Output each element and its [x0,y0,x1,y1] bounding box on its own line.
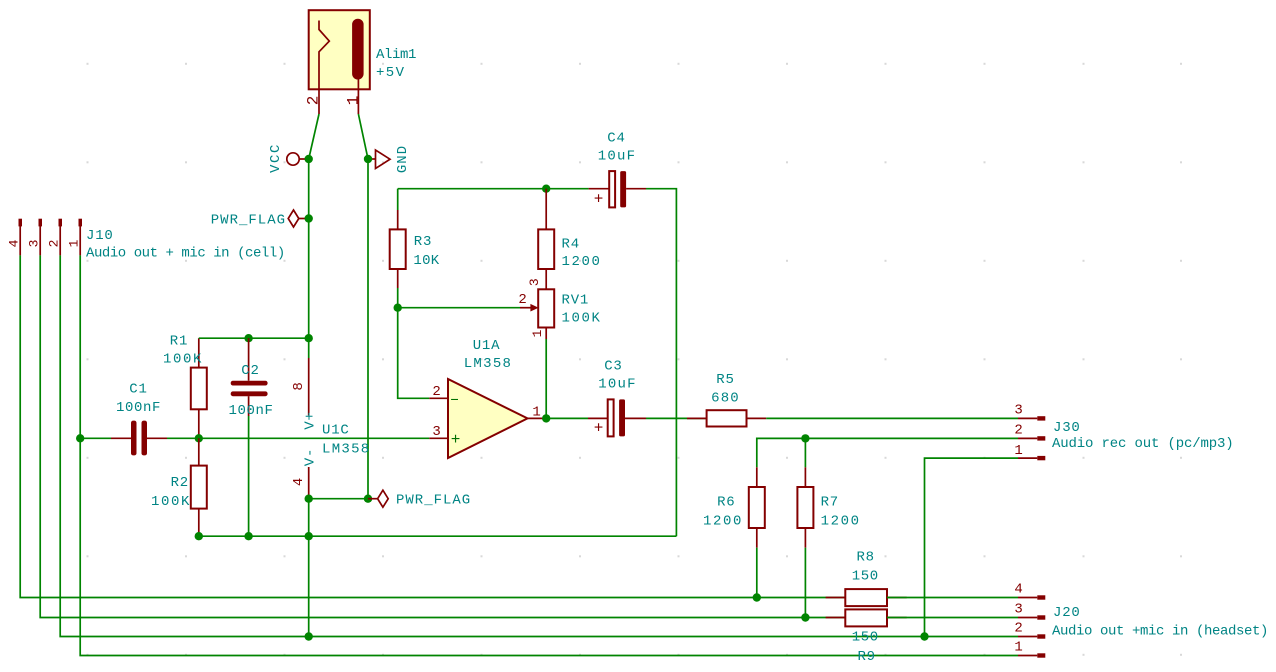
svg-text:C4: C4 [607,131,625,147]
wire J10 pin4 to row A [20,255,845,597]
svg-text:VCC: VCC [268,143,284,173]
resistor R7 [797,438,860,617]
svg-text:R4: R4 [562,237,580,253]
resistor R3 [390,189,440,308]
svg-text:R5: R5 [716,372,734,388]
wire C1 to R divider [147,437,167,439]
svg-text:4: 4 [291,477,307,486]
svg-text:U1A: U1A [473,338,501,354]
svg-text:R8: R8 [856,550,874,566]
svg-text:100nF: 100nF [116,400,161,416]
wire bottom feedback rail [199,535,677,537]
svg-text:4: 4 [7,239,22,248]
svg-text:8: 8 [291,381,307,390]
connector J30 pin 2 [1014,423,1045,441]
node R1 bottom junction [195,434,203,442]
svg-text:1: 1 [532,405,541,421]
svg-text:100nF: 100nF [228,403,273,419]
svg-text:2: 2 [518,292,527,308]
power symbol VCC [268,143,309,173]
svg-text:1: 1 [530,329,545,338]
svg-text:Audio out +mic in (headset): Audio out +mic in (headset) [1052,623,1268,639]
connector J20 pin 1 [1014,640,1045,658]
connector J10 pin 3 [27,219,43,256]
svg-text:10uF: 10uF [598,376,636,392]
wire Alim1 pin1 to GND node [358,114,368,159]
wire pin4 to PWR_FLAG [309,498,368,500]
wire C1 input [80,437,111,439]
op-amp U1C power unit pin 4 V- [291,448,319,499]
svg-text:3: 3 [27,239,42,248]
node R3 bottom junction [394,304,402,312]
connector Alim1 body [309,10,370,89]
connector J10 pin 1 [67,219,83,256]
wire RV1 pin1 to output node [545,339,547,418]
svg-text:R3: R3 [414,234,432,250]
svg-text:1200: 1200 [703,514,743,530]
svg-text:150: 150 [852,568,879,584]
svg-text:10K: 10K [413,253,439,269]
svg-text:3: 3 [1014,403,1023,419]
connector J30 pin 1 [1014,443,1045,460]
capacitor C1 [116,381,161,455]
svg-text:1: 1 [1014,443,1023,459]
wire Alim1 pin2 to VCC node [309,114,319,159]
svg-text:V+: V+ [303,411,319,429]
connector J20 pin 3 [1014,602,1045,620]
capacitor C2 [228,338,273,536]
wire J30 pin2 row [757,438,1018,467]
op-amp U1C power unit pin 8 V+ [291,338,319,430]
svg-text:–: – [450,391,460,409]
svg-text:1: 1 [1014,640,1023,656]
svg-text:150: 150 [852,629,879,645]
wire R5 to J30 pin 3 [766,417,1018,419]
wire J30 pin1 row [925,458,1019,636]
wire R1 top rail [199,337,309,339]
svg-text:3: 3 [527,277,542,286]
svg-text:2: 2 [47,239,62,248]
connector J30 pin 3 [1014,403,1045,421]
svg-text:1: 1 [67,239,82,248]
grid dots [87,63,1183,656]
svg-text:J10: J10 [86,228,114,244]
svg-text:100K: 100K [562,311,602,327]
wire GND rail vertical [367,159,369,499]
svg-text:R1: R1 [170,334,188,350]
svg-text:2: 2 [305,95,323,105]
svg-text:Alim1: Alim1 [376,47,416,63]
wire J10 pin2 to row C [60,255,1018,636]
potentiometer RV1 [518,277,601,339]
node row C / J30 pin1 junction [920,632,928,640]
connector J10 pin 4 [7,219,23,256]
svg-text:Audio out + mic in (cell): Audio out + mic in (cell) [86,246,285,262]
node PWR_FLAG junction [305,214,313,222]
svg-text:2: 2 [1014,423,1023,439]
resistor R4 [538,189,601,290]
resistor R9 [826,609,907,665]
svg-text:PWR_FLAG: PWR_FLAG [211,213,286,229]
connector J20 pin 4 [1014,582,1045,600]
svg-text:J30: J30 [1053,420,1081,436]
wire VCC rail vertical [308,159,310,338]
svg-text:+5V: +5V [376,65,405,81]
node C2 top junction [244,334,252,342]
svg-text:J20: J20 [1053,605,1081,621]
svg-text:Audio rec out (pc/mp3): Audio rec out (pc/mp3) [1052,436,1234,452]
svg-text:R2: R2 [171,475,189,491]
node R4 top junction [542,185,550,193]
svg-text:3: 3 [432,424,441,440]
connector J10 pin 2 [47,219,63,256]
svg-text:+: + [594,191,604,209]
resistor R8 [826,550,907,607]
svg-text:LM358: LM358 [464,356,513,372]
svg-text:+: + [451,431,461,449]
resistor R6 [703,467,765,597]
node bottom rail crossing junction [305,532,313,540]
svg-text:V-: V- [303,448,319,466]
wire pin4 node down to row C [308,499,310,637]
svg-text:RV1: RV1 [562,293,590,309]
svg-text:R6: R6 [717,495,735,511]
op-amp U1A [429,338,546,458]
wire R3 node down to op-amp pin 2 [398,308,430,399]
node J10 pin1 / C1 junction [76,434,84,442]
node row C junction [305,632,313,640]
svg-text:100K: 100K [151,494,191,510]
Alim1 switch contact pin 2 [319,21,329,115]
node VCC rail / rail top junction [305,334,313,342]
svg-text:C3: C3 [604,358,622,374]
power flag PWR_FLAG lower [368,490,471,509]
resistor R2 [151,438,207,536]
wire R8 to J20 pin 4 [887,597,1018,599]
svg-text:R7: R7 [821,495,839,511]
resistor R1 [163,334,207,439]
node R7 top junction [801,434,809,442]
svg-text:1200: 1200 [821,514,861,530]
node C2 bottom junction [244,532,252,540]
svg-text:1200: 1200 [562,254,602,270]
wire R9 to J20 pin 3 [887,617,1018,619]
svg-text:2: 2 [432,384,441,400]
svg-text:C1: C1 [129,381,147,397]
svg-text:GND: GND [395,145,411,173]
svg-text:4: 4 [1014,582,1023,598]
wire R3 node to RV1 wiper [398,307,520,309]
node U1C pin4 junction [305,495,313,503]
svg-text:R9: R9 [857,649,875,665]
node R6 bottom junction [753,593,761,601]
connector J20 pin 2 [1014,621,1045,639]
node GND junction [364,155,372,163]
power flag PWR_FLAG upper [211,210,309,229]
svg-text:PWR_FLAG: PWR_FLAG [396,493,471,509]
node R7 bottom junction [801,613,809,621]
wire J10 pin3 to row B [40,255,845,617]
svg-text:100K: 100K [163,352,203,368]
capacitor C3 polarized [546,358,646,437]
power symbol GND [368,145,411,173]
svg-text:1: 1 [345,95,363,105]
svg-text:+: + [594,420,604,438]
resistor R5 [687,372,766,427]
wire C4 to right loop [646,189,676,537]
node GND rail bottom junction [364,495,372,503]
svg-text:C2: C2 [241,363,259,379]
svg-text:10uF: 10uF [598,149,636,165]
svg-text:U1C: U1C [322,423,350,439]
wire C3 to R5 [646,417,707,419]
svg-text:LM358: LM358 [322,442,371,458]
svg-text:3: 3 [1014,602,1023,618]
capacitor C4 polarized [589,131,646,209]
node R2 bottom junction [195,532,203,540]
Alim1 tip contact pin 1 [352,19,364,80]
svg-text:680: 680 [711,391,740,407]
svg-text:2: 2 [1014,621,1023,637]
node op-amp output junction [542,414,550,422]
node VCC junction [305,155,313,163]
wire top rail [398,188,589,190]
wire J10 pin1 to row D [80,255,1018,655]
